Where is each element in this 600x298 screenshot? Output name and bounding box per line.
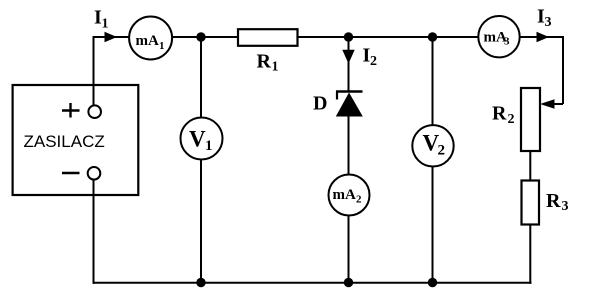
- wire V1 to bottom rail: [200, 160, 202, 283]
- node C (top, V2 branch): [428, 32, 437, 41]
- wire mA1 to R1: [172, 36, 239, 38]
- minus symbol: [62, 172, 80, 174]
- svg-text:mA: mA: [333, 187, 356, 203]
- wire R2 to R3: [529, 151, 531, 181]
- power supply box ZASILACZ: [13, 85, 139, 195]
- svg-text:1: 1: [102, 17, 109, 32]
- svg-text:2: 2: [356, 194, 362, 206]
- svg-text:2: 2: [508, 112, 515, 127]
- resistor R3: [522, 181, 540, 225]
- wire node C down to V2: [432, 37, 434, 126]
- ammeter mA1: [129, 17, 172, 60]
- svg-text:D: D: [313, 93, 327, 115]
- svg-text:3: 3: [545, 15, 552, 30]
- diode D: [336, 92, 363, 117]
- wire mA3 right to corner: [520, 37, 563, 104]
- node F (bottom, V2 branch): [428, 278, 437, 287]
- node E (bottom, mA2 branch): [344, 278, 353, 287]
- svg-text:2: 2: [438, 143, 446, 159]
- svg-text:R: R: [546, 190, 561, 212]
- svg-text:V: V: [189, 127, 206, 152]
- minus terminal: [88, 167, 101, 180]
- ammeter mA3: [478, 16, 519, 57]
- wire node B down to diode: [348, 37, 350, 92]
- wire R1 to mA3: [298, 36, 479, 38]
- svg-text:1: 1: [159, 40, 165, 52]
- wire R3 down to bottom rail: [529, 225, 531, 284]
- plus symbol: [62, 103, 80, 118]
- node A (top, V1 branch): [196, 32, 205, 41]
- svg-text:R: R: [257, 51, 272, 73]
- svg-text:ZASILACZ: ZASILACZ: [24, 132, 105, 151]
- svg-text:3: 3: [504, 36, 510, 48]
- resistor R1: [238, 29, 298, 46]
- bottom rail: [93, 282, 532, 284]
- wire diode to mA2: [348, 115, 350, 175]
- voltmeter V1: [181, 118, 223, 160]
- current arrow I3: [537, 32, 550, 43]
- svg-text:mA: mA: [136, 33, 159, 49]
- svg-text:1: 1: [205, 138, 213, 154]
- node B (top, diode branch): [344, 32, 353, 41]
- wire node A down to V1: [200, 37, 202, 118]
- wire from + terminal up and right to mA1: [94, 37, 131, 106]
- svg-text:1: 1: [272, 60, 279, 75]
- svg-text:2: 2: [370, 54, 377, 69]
- svg-text:R: R: [492, 103, 507, 125]
- potentiometer R2: [521, 88, 540, 151]
- current arrow I1: [105, 32, 118, 43]
- wire V2 to bottom rail: [432, 167, 434, 283]
- svg-text:3: 3: [562, 199, 569, 214]
- current arrow I2: [342, 50, 354, 64]
- plus terminal: [88, 105, 101, 118]
- wiper arrow: [540, 99, 555, 108]
- wire bottom rail up to minus terminal: [93, 180, 95, 284]
- ammeter mA2: [329, 175, 370, 216]
- node D (bottom, V1 branch): [196, 278, 205, 287]
- wire mA2 to bottom rail: [348, 216, 350, 283]
- wiper wire into R2: [553, 103, 563, 105]
- voltmeter V2: [412, 125, 453, 166]
